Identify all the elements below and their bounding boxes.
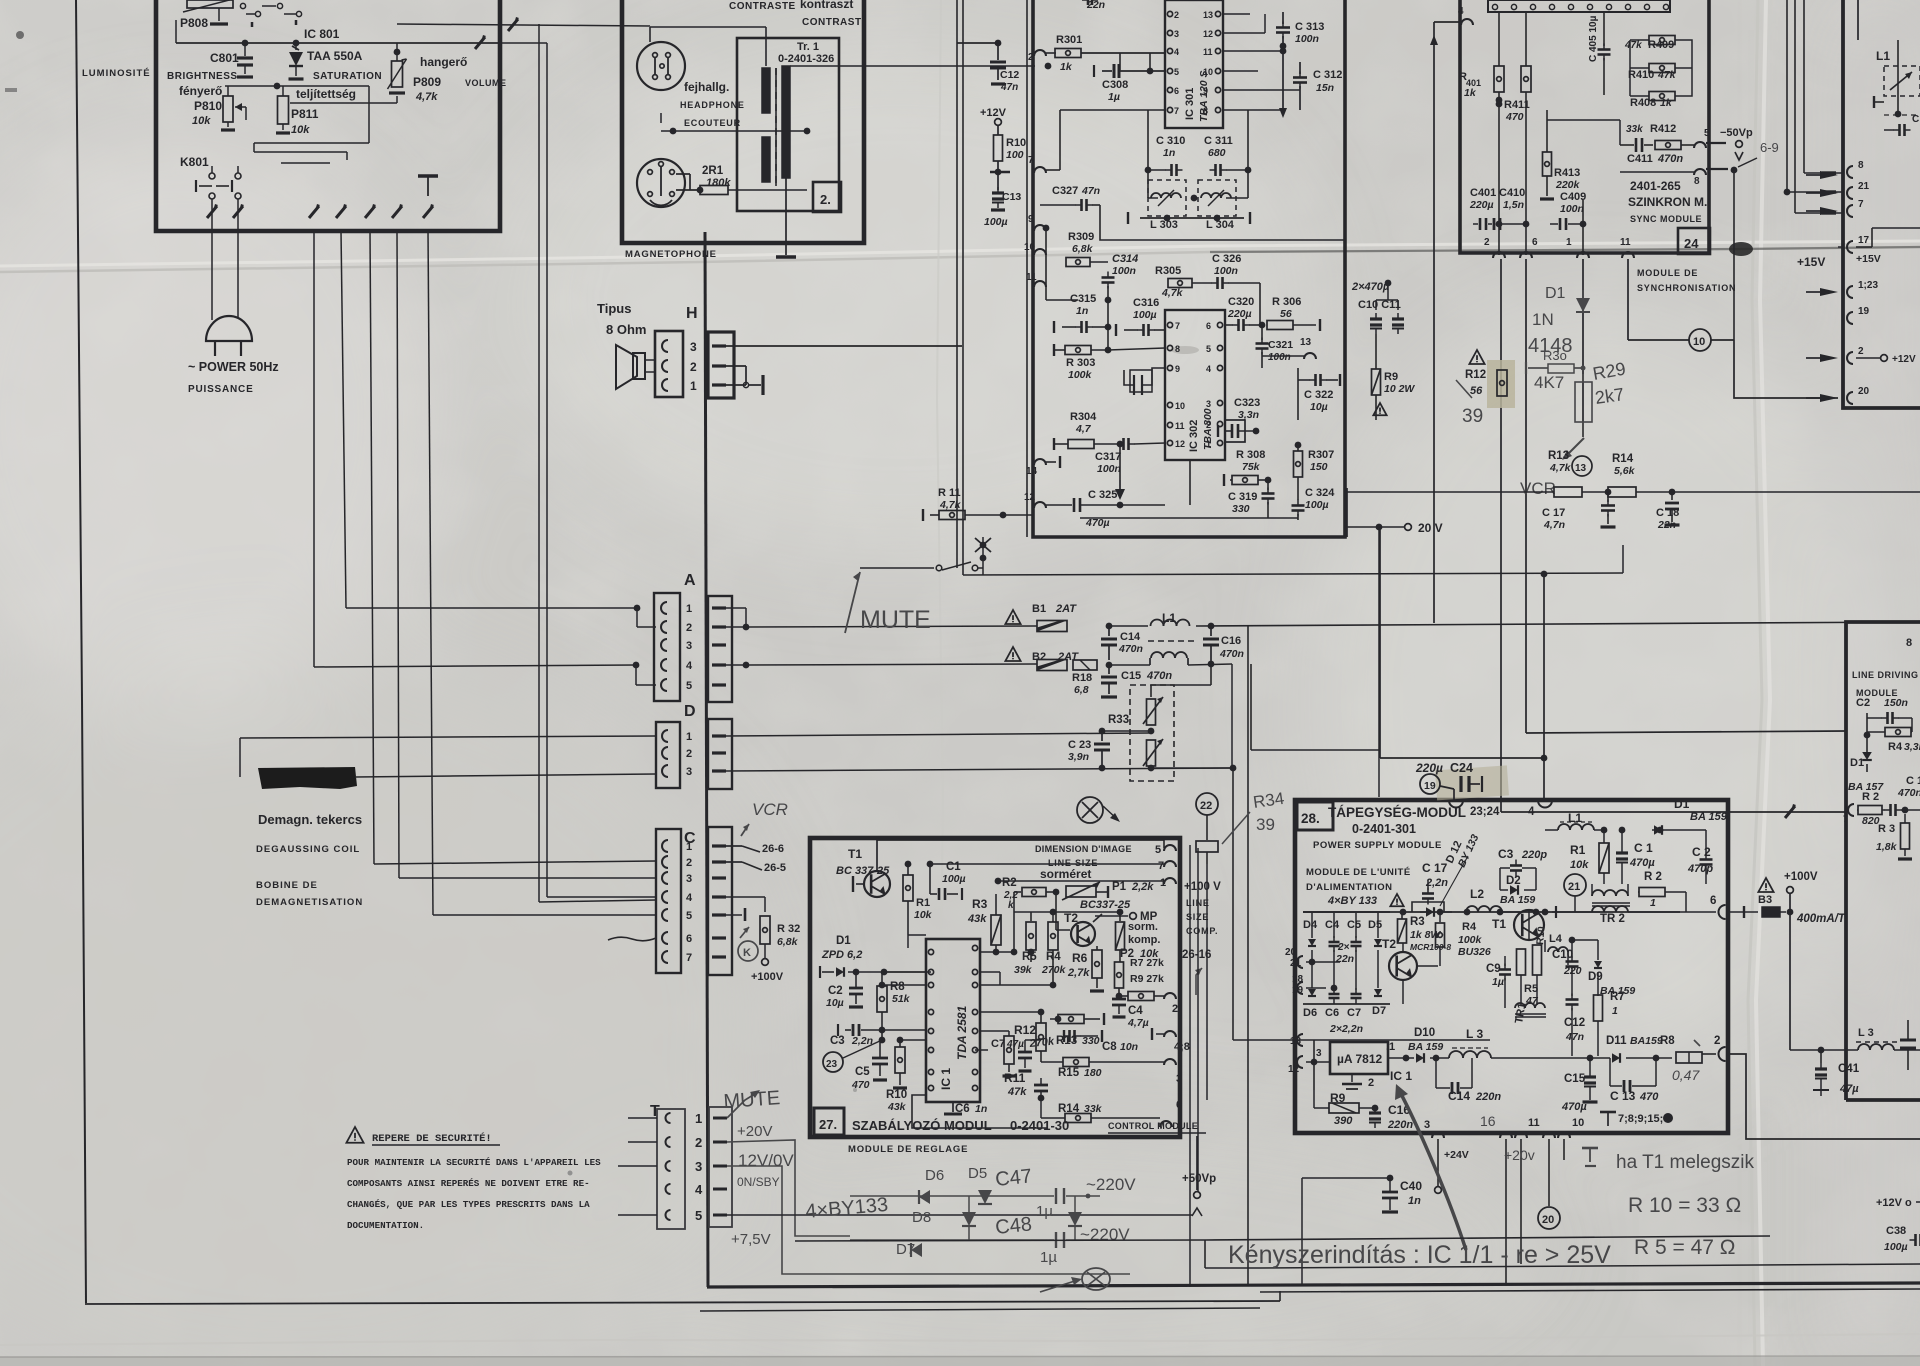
- svg-text:R3: R3: [972, 897, 988, 911]
- pin 6 right: [1680, 895, 1726, 919]
- IC301 TBA120S box: [1165, 0, 1223, 128]
- svg-text:R10: R10: [886, 1089, 907, 1101]
- svg-text:TR 2: TR 2: [1600, 913, 1625, 925]
- svg-text:R 2: R 2: [1644, 871, 1662, 883]
- svg-text:BA 159: BA 159: [1500, 894, 1535, 906]
- wires IC1 left: [879, 935, 926, 1040]
- svg-text:100n: 100n: [1295, 33, 1319, 45]
- svg-text:56: 56: [1280, 308, 1292, 320]
- resistor R308 75k: [1224, 449, 1271, 486]
- svg-text:R13: R13: [1548, 450, 1569, 462]
- diode D1 BA159 power: [1652, 797, 1728, 835]
- svg-text:K801: K801: [180, 155, 209, 169]
- resistor R307 150: [1294, 442, 1335, 500]
- svg-text:P808: P808: [180, 16, 208, 30]
- svg-text:47n: 47n: [1081, 185, 1100, 197]
- sync bottom pins: [1484, 237, 1634, 258]
- svg-text:R309: R309: [1068, 231, 1094, 243]
- svg-text:23;24: 23;24: [1470, 806, 1500, 818]
- svg-text:0-2401-326: 0-2401-326: [778, 53, 834, 65]
- capacitor C314 100n: [1102, 253, 1139, 330]
- svg-text:R 32: R 32: [777, 923, 800, 935]
- svg-text:ECOUTEUR: ECOUTEUR: [684, 118, 741, 128]
- svg-text:C2: C2: [828, 985, 843, 997]
- svg-text:MUTE: MUTE: [723, 1087, 781, 1113]
- svg-text:4,7: 4,7: [1075, 423, 1092, 435]
- wire X to module: [1103, 810, 1112, 818]
- svg-text:C48: C48: [994, 1213, 1033, 1239]
- big pencil arrow to IC1: [1395, 1084, 1466, 1250]
- svg-text:47k: 47k: [1007, 1086, 1027, 1098]
- node 20V: [1345, 521, 1443, 797]
- node X circle arrow: [963, 575, 1120, 823]
- capacitor C17 4.7n: [1542, 492, 1616, 531]
- svg-text:4K7: 4K7: [1534, 373, 1564, 392]
- svg-text:470n: 470n: [1219, 648, 1244, 660]
- svg-text:470: 470: [1505, 111, 1524, 123]
- svg-text:Demagn. tekercs: Demagn. tekercs: [258, 812, 362, 827]
- capacitor C311 680: [1204, 135, 1251, 176]
- svg-text:5,6k: 5,6k: [1614, 465, 1636, 477]
- potentiometer P2: [1116, 909, 1125, 962]
- text fejhallg HEADPHONE ECOUTEUR: [680, 80, 745, 128]
- IC1 bottom lead: [912, 1095, 1048, 1128]
- svg-text:R413: R413: [1554, 167, 1580, 179]
- svg-text:D5: D5: [968, 1165, 987, 1182]
- bridge diodes D6 C6 C7 D7: [1303, 950, 1390, 1035]
- svg-text:R305: R305: [1155, 265, 1181, 277]
- capacitor C319 330: [1228, 480, 1275, 518]
- svg-text:10: 10: [1024, 242, 1036, 253]
- node 23 circle: [823, 1040, 882, 1072]
- handwritten R30 4K7 resistor: [1526, 348, 1586, 392]
- svg-text:C7: C7: [991, 1038, 1005, 1050]
- switch contacts top: [240, 3, 301, 27]
- contrast module box: [622, 0, 864, 243]
- connector A right strip: [708, 596, 732, 702]
- transistor T1 BC337-25: [836, 847, 890, 897]
- capacitor C15 470u: [1561, 1055, 1598, 1113]
- svg-text:R1: R1: [1570, 843, 1586, 857]
- svg-text:C13: C13: [1002, 191, 1021, 203]
- svg-text:CONTROL MODULE: CONTROL MODULE: [1108, 1121, 1198, 1131]
- svg-text:IC 801: IC 801: [304, 27, 340, 41]
- svg-text:20 V: 20 V: [1418, 521, 1443, 535]
- text SATURATION teljitettseg: [296, 71, 382, 101]
- svg-text:47n: 47n: [1000, 82, 1018, 93]
- svg-text:2,7k: 2,7k: [1067, 967, 1090, 979]
- module28 left pins: [1233, 947, 1490, 1075]
- svg-text:6,8: 6,8: [1074, 684, 1089, 696]
- svg-text:47k: 47k: [1657, 69, 1677, 81]
- +12V node right: [1856, 354, 1916, 365]
- diode D11 BA159 R8: [1560, 1035, 1920, 1139]
- svg-text:R307: R307: [1308, 449, 1334, 461]
- svg-text:470n: 470n: [1146, 670, 1172, 682]
- svg-text:D1: D1: [1850, 757, 1864, 769]
- text MODULE DE REGLAGE: [848, 1144, 968, 1155]
- speaker: [616, 345, 656, 389]
- svg-text:4,7k: 4,7k: [415, 91, 438, 103]
- label 26-5: [726, 862, 786, 874]
- capacitor C12 47n: [957, 40, 1019, 93]
- fuse B3 400mA: [1728, 871, 1846, 1050]
- svg-text:4;8: 4;8: [1174, 1041, 1190, 1053]
- coil L2: [1466, 887, 1520, 912]
- svg-text:C 1: C 1: [1634, 841, 1653, 855]
- svg-text:R1: R1: [916, 897, 930, 909]
- svg-text:2×470µ: 2×470µ: [1351, 281, 1390, 293]
- degaussing coil blackout bar: [258, 767, 656, 789]
- svg-text:11: 11: [1528, 1117, 1540, 1129]
- svg-text:4: 4: [1206, 364, 1211, 374]
- svg-text:C 17: C 17: [1542, 507, 1565, 519]
- svg-text:0N/SBY: 0N/SBY: [737, 1175, 780, 1189]
- IC302 TBA800 box: [1165, 310, 1225, 460]
- capacitor C2 150n right: [1856, 697, 1912, 755]
- svg-text:Tr. 1: Tr. 1: [797, 41, 819, 53]
- svg-text:R14: R14: [1612, 453, 1634, 465]
- svg-text:L 304: L 304: [1206, 219, 1235, 231]
- svg-text:10k: 10k: [291, 124, 310, 136]
- svg-text:MODULE DE: MODULE DE: [1637, 268, 1698, 278]
- svg-text:SZINKRON M.: SZINKRON M.: [1628, 195, 1707, 209]
- svg-text:3: 3: [686, 640, 692, 652]
- resistor R4 3.3k right: [1867, 728, 1920, 754]
- wires D right: [726, 733, 1233, 771]
- svg-text:2: 2: [1206, 420, 1211, 430]
- svg-text:R304: R304: [1070, 411, 1097, 423]
- +12V bottom right: [1876, 1197, 1920, 1209]
- svg-text:VCR: VCR: [752, 800, 788, 819]
- svg-text:k: k: [1008, 900, 1014, 911]
- svg-text:C401: C401: [1470, 187, 1496, 199]
- svg-text:C24: C24: [1450, 761, 1473, 775]
- svg-text:R12: R12: [1465, 369, 1486, 381]
- labels 2x470u C10 C11: [1351, 280, 1404, 334]
- diodes D6 D5 row: [919, 1165, 992, 1204]
- svg-text:8: 8: [1694, 176, 1700, 187]
- svg-text:1: 1: [686, 841, 692, 853]
- resistor R12 270k: [1014, 1009, 1056, 1062]
- svg-text:C 2: C 2: [1692, 845, 1711, 859]
- sync module vertical wires down: [1501, 259, 1846, 812]
- svg-text:D11: D11: [1606, 1035, 1627, 1047]
- switch K801: [180, 152, 347, 199]
- connector H left box: [655, 331, 697, 397]
- resistor R303 100k: [1054, 330, 1165, 381]
- fuse 33k R412 C411: [1620, 123, 1710, 165]
- svg-text:2: 2: [686, 857, 692, 869]
- text BRIGHTNESS fenyero: [167, 71, 238, 98]
- warning R12 triangle: [1469, 350, 1484, 364]
- pin 14 arc: [1026, 456, 1060, 477]
- wires K801 to plug: [212, 199, 238, 320]
- wire 17 15V: [1856, 228, 1920, 247]
- svg-text:C7: C7: [1347, 1007, 1361, 1019]
- capacitor C322 10u: [1298, 368, 1340, 420]
- svg-text:D1: D1: [836, 935, 851, 947]
- capacitor C316 100u: [1116, 297, 1165, 336]
- coil L1 power: [1545, 811, 1604, 830]
- svg-text:C327: C327: [1052, 185, 1078, 197]
- svg-text:C 1: C 1: [1906, 775, 1920, 787]
- svg-text:C 311: C 311: [1204, 135, 1233, 147]
- capacitor C48 1u: [994, 1213, 1130, 1266]
- svg-text:2.: 2.: [820, 192, 831, 207]
- transformer TR1: [1513, 1002, 1546, 1025]
- svg-text:C2: C2: [1856, 697, 1870, 709]
- resistor R2 2.2k: [1002, 877, 1059, 952]
- svg-text:R 2: R 2: [1862, 791, 1879, 803]
- svg-text:P1: P1: [1112, 881, 1127, 893]
- svg-text:P810: P810: [194, 99, 222, 113]
- diodes D8 D7 row: [896, 1209, 1082, 1258]
- pencil K circle: [738, 927, 758, 961]
- resistor R6 2.7k: [1067, 946, 1104, 991]
- svg-text:150: 150: [1310, 461, 1328, 473]
- wire B1 to module28: [1109, 622, 1920, 1286]
- svg-text:A: A: [684, 572, 696, 589]
- control panel box K801/P808: [156, 0, 500, 231]
- svg-text:R33: R33: [1108, 714, 1129, 726]
- transformer Tr1 windings: [762, 66, 790, 186]
- horizontal fold crease: [0, 241, 1920, 272]
- svg-text:fényerő: fényerő: [179, 84, 222, 98]
- transformer Tr1 box: [737, 38, 839, 211]
- fuse B2 2AT: [1005, 647, 1112, 671]
- svg-text:1µ: 1µ: [1040, 1249, 1057, 1266]
- svg-text:R12: R12: [1014, 1023, 1036, 1037]
- IC1 pins right: [972, 945, 977, 1090]
- svg-text:1: 1: [686, 731, 692, 743]
- capacitor C2 10u: [826, 969, 863, 1009]
- capacitor C14 470n: [1101, 626, 1143, 660]
- svg-text:C 319: C 319: [1228, 491, 1257, 503]
- svg-text:470n: 470n: [1897, 787, 1920, 799]
- center vertical crease: [937, 0, 943, 1100]
- resistor R10 43k: [886, 1037, 907, 1113]
- svg-text:B2: B2: [1032, 651, 1046, 663]
- svg-text:3: 3: [686, 766, 692, 778]
- handwritten MUTE: [845, 572, 931, 634]
- svg-text:DIMENSION D'IMAGE: DIMENSION D'IMAGE: [1035, 844, 1132, 854]
- svg-text:R18: R18: [1072, 672, 1092, 684]
- svg-text:9: 9: [1203, 86, 1208, 96]
- svg-text:9: 9: [1175, 364, 1180, 374]
- svg-text:C1: C1: [946, 861, 961, 873]
- pin 8 sync: [1620, 169, 1706, 187]
- pin 2 module: [1028, 50, 1056, 63]
- svg-text:IC 1: IC 1: [939, 1068, 953, 1090]
- caps C401 C410 C409: [1469, 187, 1586, 255]
- svg-text:+7,5V: +7,5V: [731, 1231, 771, 1248]
- svg-text:220µ: 220µ: [1415, 761, 1443, 775]
- svg-text:1N: 1N: [1532, 310, 1554, 329]
- svg-text:24: 24: [1684, 236, 1699, 251]
- svg-text:8: 8: [1858, 160, 1864, 171]
- svg-text:+100V: +100V: [1784, 871, 1818, 883]
- svg-text:100k: 100k: [1458, 934, 1483, 946]
- svg-text:L 303: L 303: [1150, 219, 1178, 231]
- svg-text:D6: D6: [925, 1167, 944, 1184]
- handwritten VCR arrow: [741, 800, 788, 836]
- svg-text:sorm.: sorm.: [1128, 921, 1158, 933]
- svg-text:BA 159: BA 159: [1408, 1041, 1443, 1053]
- cap C405 10u: [1588, 12, 1611, 95]
- svg-text:SZABÁLYOZÓ MODUL: SZABÁLYOZÓ MODUL: [852, 1118, 992, 1133]
- svg-text:ZPD 6,2: ZPD 6,2: [821, 949, 862, 961]
- diode D10 BA159: [1406, 1027, 1443, 1063]
- svg-text:14: 14: [1026, 466, 1038, 477]
- resistor R9 27k: [1119, 973, 1178, 1015]
- svg-text:LINE DRIVING: LINE DRIVING: [1852, 670, 1919, 680]
- handwritten Kenyszerinditas: [1228, 1241, 1611, 1269]
- capacitor C308 1u: [1094, 53, 1165, 103]
- resistor R401 1k: [1459, 12, 1531, 255]
- svg-text:1: 1: [695, 1111, 702, 1126]
- svg-text:SYNCHRONISATION: SYNCHRONISATION: [1637, 283, 1736, 293]
- label A: [684, 572, 696, 589]
- svg-text:100k: 100k: [1068, 369, 1093, 381]
- svg-text:470n: 470n: [1118, 643, 1143, 655]
- node 21 circle: [1552, 874, 1600, 918]
- svg-text:8 Ohm: 8 Ohm: [606, 322, 646, 337]
- IC302 pins: [1167, 321, 1222, 449]
- svg-text:2AT: 2AT: [1055, 603, 1077, 615]
- svg-text:C14: C14: [1120, 631, 1141, 643]
- connector A left box: [654, 593, 693, 701]
- svg-text:2: 2: [1714, 1035, 1720, 1047]
- text SZABALYOZO MODUL: [852, 1118, 1206, 1133]
- svg-text:470µ: 470µ: [1085, 517, 1110, 529]
- svg-text:10µ: 10µ: [826, 997, 844, 1009]
- resistor R4 270k: [1031, 909, 1120, 989]
- svg-text:C314: C314: [1112, 253, 1138, 265]
- svg-text:SATURATION: SATURATION: [313, 71, 382, 82]
- svg-text:26-5: 26-5: [764, 862, 786, 874]
- capacitor C17 22n: [1412, 861, 1448, 912]
- svg-text:10: 10: [1175, 401, 1185, 411]
- svg-text:11: 11: [1026, 272, 1037, 283]
- svg-text:+12V o: +12V o: [1876, 1197, 1912, 1209]
- svg-text:1,5n: 1,5n: [1503, 199, 1524, 211]
- svg-text:R10: R10: [1535, 926, 1548, 946]
- handwritten 4xBY133: [805, 1194, 889, 1223]
- svg-text:2: 2: [1858, 346, 1864, 357]
- svg-text:39: 39: [1462, 406, 1483, 427]
- svg-text:R 306: R 306: [1272, 296, 1301, 308]
- pins 9 10 11: [1024, 214, 1078, 300]
- svg-text:D5: D5: [1368, 919, 1382, 931]
- svg-text:BA159: BA159: [1630, 1035, 1663, 1047]
- potentiometer P1 2.2k: [1062, 881, 1154, 900]
- page border bottom: [85, 1291, 1280, 1311]
- svg-text:47n: 47n: [1565, 1031, 1584, 1043]
- svg-text:21: 21: [1568, 881, 1580, 893]
- wire fenyero row: [225, 83, 369, 143]
- svg-text:R412: R412: [1650, 123, 1676, 135]
- wire x539 long: [397, 17, 656, 902]
- svg-text:12: 12: [1203, 29, 1213, 39]
- text 2401-265 SZINKRON M: [1628, 179, 1707, 224]
- svg-text:6: 6: [1532, 237, 1538, 248]
- svg-text:D1: D1: [1674, 797, 1690, 811]
- svg-text:Kényszerindítás : IC 1/1 - re: Kényszerindítás : IC 1/1 - re > 25V: [1228, 1241, 1611, 1269]
- coil L303 dashed: [1128, 180, 1194, 231]
- svg-text:+100V: +100V: [751, 971, 784, 983]
- svg-text:7: 7: [1843, 814, 1848, 824]
- resistor R12 56 39: [1456, 369, 1507, 427]
- label R18: [1072, 672, 1092, 696]
- right module box: [1843, 0, 1920, 408]
- resistor R11 47k: [1003, 1031, 1028, 1098]
- handwritten R5 = 47 ohm: [1634, 1236, 1736, 1259]
- svg-text:R4: R4: [1462, 921, 1477, 933]
- headphone DIN connector: [637, 42, 685, 90]
- capacitor C9: [1486, 956, 1511, 990]
- svg-text:L1: L1: [1876, 49, 1890, 63]
- svg-text:1: 1: [686, 603, 692, 615]
- svg-text:1k 8W: 1k 8W: [1410, 929, 1441, 941]
- ground 7 8 9 15: [1600, 1112, 1673, 1126]
- svg-text:3: 3: [695, 1159, 702, 1174]
- wire pin7 loop: [1148, 110, 1248, 198]
- svg-text:T1: T1: [1492, 917, 1506, 931]
- pencil wires 220V rows: [850, 1194, 1100, 1240]
- bridge diodes D4 C4 C5 D5: [1303, 912, 1390, 965]
- svg-text:REPERE DE SECURITÉ!: REPERE DE SECURITÉ!: [372, 1131, 492, 1145]
- svg-text:3: 3: [1174, 29, 1179, 39]
- capacitor C4 4.7u: [1112, 996, 1149, 1029]
- svg-text:R 5 = 47 Ω: R 5 = 47 Ω: [1634, 1236, 1736, 1259]
- svg-text:10n: 10n: [1120, 1041, 1138, 1053]
- svg-text:R9 27k: R9 27k: [1130, 973, 1164, 985]
- transistor T2 thyristor: [1382, 937, 1438, 1004]
- svg-text:1n: 1n: [975, 1103, 987, 1115]
- svg-text:1: 1: [1160, 877, 1166, 889]
- svg-text:43k: 43k: [887, 1101, 907, 1113]
- svg-text:µA 7812: µA 7812: [1337, 1052, 1382, 1066]
- svg-text:C316: C316: [1133, 297, 1159, 309]
- capacitor C326 100n: [1212, 253, 1261, 325]
- resistor R304 4.7: [1054, 411, 1120, 450]
- svg-text:5: 5: [1206, 344, 1211, 354]
- wire x547: [475, 35, 547, 897]
- svg-text:7: 7: [1028, 155, 1034, 166]
- svg-text:2k7: 2k7: [1594, 384, 1626, 408]
- svg-text:11: 11: [1620, 237, 1631, 248]
- svg-text:+15V: +15V: [1797, 255, 1825, 269]
- resistors R409 R410 R408: [1624, 36, 1692, 110]
- svg-text:1,8k: 1,8k: [1876, 841, 1898, 853]
- svg-text:D6: D6: [1303, 1007, 1317, 1019]
- text LUMINOSITE: [82, 68, 151, 79]
- svg-text:CHANGÉS, QUE PAR LES TYPES PRE: CHANGÉS, QUE PAR LES TYPES PRESCRITS DAN…: [347, 1199, 590, 1210]
- module28 bottom pins: [1424, 1113, 1584, 1138]
- handwritten R29 2k7 resistor: [1575, 359, 1627, 437]
- pencil wire +20V: [727, 1140, 850, 1236]
- svg-text:4: 4: [1528, 806, 1535, 818]
- resistor R305 4.7k: [1155, 265, 1212, 299]
- degauss wire loop: [240, 736, 656, 777]
- control module 27 box: [810, 838, 1180, 1137]
- svg-text:BOBINE DE: BOBINE DE: [256, 880, 318, 891]
- svg-text:DOCUMENTATION.: DOCUMENTATION.: [347, 1220, 424, 1231]
- svg-text:TDA 2581: TDA 2581: [955, 1005, 969, 1060]
- resistor R9 10 2W: [1372, 334, 1416, 420]
- svg-text:220k: 220k: [1555, 179, 1581, 191]
